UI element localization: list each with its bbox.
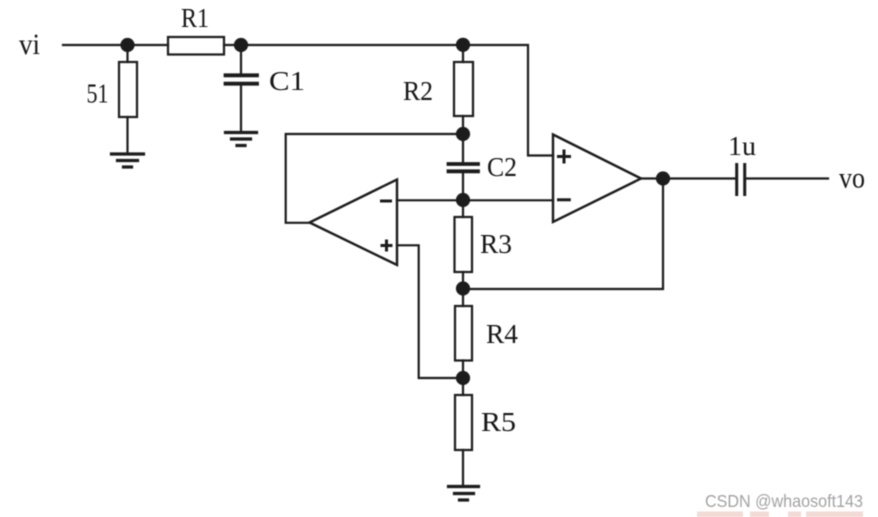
wire [462,450,464,485]
wire [224,44,241,46]
svg-text:R5: R5 [481,407,516,437]
svg-text:R1: R1 [181,3,209,33]
wire [641,177,663,179]
wire [240,86,242,132]
node G [457,372,469,384]
wire [463,45,553,156]
svg-text:C2: C2 [487,152,517,182]
resistor R3 [455,217,473,272]
ground [226,133,257,146]
wire [241,44,463,46]
svg-text:R2: R2 [403,76,433,106]
op-amp U2 [553,135,641,223]
svg-text:C1: C1 [269,66,305,96]
node C [457,39,469,51]
capacitor C1 [226,75,258,83]
svg-text:R4: R4 [486,319,519,349]
wire [463,179,663,290]
op-amp U1 [310,180,398,266]
wire [746,177,828,179]
ground [112,154,144,167]
resistor 51 [119,62,137,117]
wire [286,134,463,223]
svg-text:R3: R3 [480,229,512,259]
capacitor 1u [737,165,745,195]
node B [235,39,247,51]
wire [63,44,128,46]
node E [457,194,469,206]
wire [397,199,553,201]
wire [126,117,128,153]
wire [128,44,169,46]
svg-text:vi: vi [19,28,40,61]
wire [462,200,464,217]
node H [657,173,669,185]
wire [462,116,464,134]
capacitor C2 [449,164,479,171]
wire [126,45,128,62]
wire [663,177,735,179]
svg-text:CSDN @whaosoft143: CSDN @whaosoft143 [705,491,863,511]
wire [462,134,464,163]
svg-text:vo: vo [839,162,865,195]
resistor R1 [168,37,224,55]
node D [457,128,469,140]
wire [397,245,463,378]
wire [462,272,464,289]
resistor R2 [454,62,473,116]
node A [122,39,134,51]
svg-text:51: 51 [87,79,109,109]
wire [240,45,242,74]
svg-text:1u: 1u [728,131,757,161]
wire [462,378,464,395]
wire [462,361,464,379]
resistor R4 [455,306,472,361]
wire [462,289,464,306]
watermark fragment [697,512,863,517]
wire [462,45,464,62]
node F [457,283,469,295]
ground [449,487,479,501]
wire [462,173,464,201]
resistor R5 [455,395,472,450]
